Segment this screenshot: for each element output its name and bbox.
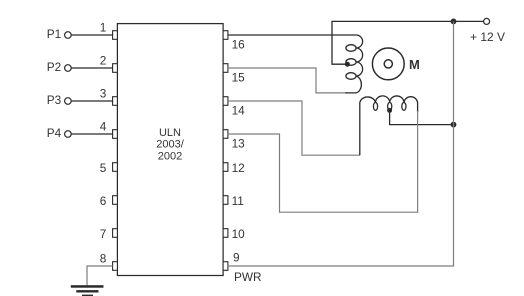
svg-text:P2: P2 [47, 60, 61, 74]
svg-text:4: 4 [100, 120, 107, 134]
pin 15 box [223, 64, 228, 73]
svg-text:3: 3 [100, 87, 107, 101]
svg-text:12: 12 [232, 161, 245, 175]
wire P1 to pin 1 [71, 34, 112, 36]
pin 2 box [113, 64, 118, 73]
svg-text:15: 15 [232, 71, 246, 85]
svg-text:2: 2 [100, 54, 107, 68]
svg-text:13: 13 [232, 137, 246, 151]
pin 6 box [113, 196, 118, 205]
junction dot L1 centre tap [345, 62, 350, 67]
pin 11 box [223, 196, 228, 205]
svg-text:9: 9 [233, 251, 240, 265]
svg-text:8: 8 [100, 252, 107, 266]
IC U1 body ULN2003/2002 [117, 24, 223, 276]
svg-text:16: 16 [232, 38, 246, 52]
junction dot rail at tap feed [451, 122, 457, 128]
wire pin 9 PWR to +12V rail [228, 21, 454, 266]
wire pin 13 to L2 right lead [228, 111, 418, 212]
wire P2 to pin 2 [71, 67, 112, 69]
wire pin 16 to relay coil L1 top lead [228, 34, 356, 36]
svg-text:14: 14 [232, 104, 246, 118]
pin 7 box [113, 229, 118, 238]
svg-text:6: 6 [100, 194, 107, 208]
wire pin 14 to stepper coil L2 left lead [228, 101, 360, 155]
svg-text:P1: P1 [47, 27, 61, 41]
wire P3 to pin 3 [71, 100, 112, 102]
wire pin 15 to L1 bottom lead [228, 68, 345, 93]
wire L2 centre tap to rail [390, 110, 454, 124]
pin 12 box [223, 163, 228, 172]
motor M1 [372, 48, 404, 80]
ground [71, 285, 104, 296]
svg-text:10: 10 [232, 227, 246, 241]
pin 14 box [223, 97, 228, 106]
svg-text:ULN: ULN [159, 127, 181, 139]
wire L1 centre tap to +12V line [332, 21, 483, 64]
svg-text:5: 5 [100, 161, 107, 175]
pin 16 box [223, 31, 228, 40]
pin 1 box [113, 31, 118, 40]
pin 4 box [113, 130, 118, 139]
svg-text:+ 12 V: + 12 V [470, 30, 505, 44]
pin 8 box [113, 262, 118, 271]
junction dot L2 centre tap [387, 108, 392, 113]
svg-text:M: M [409, 57, 420, 72]
terminal P1 [65, 32, 72, 39]
relay coil L1 (vertical, centre-tapped) [345, 35, 363, 93]
svg-text:P4: P4 [47, 126, 62, 140]
pin 10 box [223, 229, 228, 238]
svg-text:PWR: PWR [234, 270, 262, 284]
svg-text:2002: 2002 [158, 151, 182, 163]
junction dot +12V line / rail [451, 19, 457, 25]
pin 13 box [223, 130, 228, 139]
stepper coil L2 (horizontal, centre-tapped) [360, 96, 418, 155]
pin 5 box [113, 163, 118, 172]
IC U1 value label [156, 127, 184, 163]
pin 9 box [223, 262, 228, 271]
terminal P2 [65, 65, 72, 72]
terminal +12V [484, 18, 490, 24]
svg-text:1: 1 [100, 21, 107, 35]
svg-text:P3: P3 [47, 93, 62, 107]
svg-text:11: 11 [232, 194, 244, 208]
wire P4 to pin 4 [71, 133, 112, 135]
terminal P4 [65, 131, 72, 138]
svg-text:7: 7 [100, 227, 107, 241]
svg-text:2003/: 2003/ [156, 139, 184, 151]
terminal P3 [65, 98, 72, 105]
pin 3 box [113, 97, 118, 106]
wire pin 8 to ground [87, 266, 113, 285]
